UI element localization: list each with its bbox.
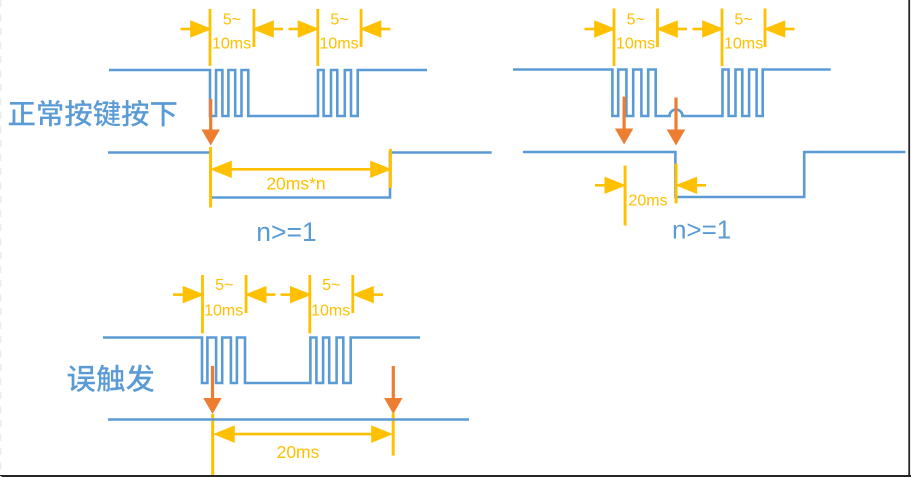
event arrow: D2 first press instant (orange) — [615, 97, 633, 145]
dimension extension line: D3 burst1 left — [201, 275, 204, 333]
wire: D1 debounced output signal — [108, 153, 492, 198]
event arrow: D3 second glitch instant (orange) — [384, 366, 402, 414]
wire: D3 raw key signal with bounce bursts — [103, 338, 420, 384]
page border: right edge — [908, 0, 910, 477]
dimension extension line: D3 20ms left — [211, 414, 214, 476]
wire: D2 debounced output signal — [523, 152, 906, 197]
svg-text:10ms: 10ms — [212, 36, 251, 53]
event arrow: D2 second press instant (orange) — [667, 98, 685, 146]
wire: D2 raw key signal with two bounce bursts and hop over arrow — [513, 70, 831, 117]
dimension extension line: D2 burst1 left — [613, 9, 616, 67]
dimension extension line: D3 burst2 right — [351, 275, 354, 313]
page border: bottom edge — [0, 475, 911, 477]
dimension arrow: D2 burst1 left (points right) — [585, 22, 613, 36]
dimension arrow: D2 burst2 left (points right) — [693, 22, 721, 36]
svg-text:10ms: 10ms — [724, 36, 763, 53]
dimension arrow: D3 burst2 left (points right) — [281, 288, 309, 302]
svg-text:5~: 5~ — [215, 277, 233, 294]
dimension extension line: D3 burst1 right — [245, 275, 248, 313]
dimension arrow: D2 burst1 right (points left) — [660, 22, 688, 36]
dimension arrow: D1 burst1 right (points left) — [256, 22, 284, 36]
dimension extension line: D1 burst1 left — [209, 9, 212, 66]
svg-text:5~: 5~ — [627, 12, 645, 29]
dimension extension line: D2 burst2 left — [721, 9, 724, 67]
dimension arrow: D2 20ms left (points right) — [595, 179, 623, 193]
svg-text:n>=1: n>=1 — [256, 217, 316, 247]
svg-text:10ms: 10ms — [616, 36, 655, 53]
dimension arrow: D3 burst1 right (points left) — [248, 288, 275, 302]
dimension arrow: D1 burst2 left (points right) — [289, 22, 317, 36]
dimension extension line: D1 burst2 left — [316, 9, 319, 66]
svg-text:10ms: 10ms — [311, 303, 350, 320]
dimension arrow: D3 burst1 left (points right) — [173, 288, 201, 302]
svg-text:n>=1: n>=1 — [672, 215, 731, 245]
dimension extension line: D1 output falling edge — [209, 147, 212, 208]
dimension arrow: D2 burst2 right (points left) — [767, 22, 795, 36]
svg-text:20ms*n: 20ms*n — [266, 174, 325, 194]
wire: D1 raw key signal with bounce bursts — [109, 70, 427, 116]
dimension arrow: D1 burst2 right (points left) — [363, 22, 391, 36]
dimension extension line: D3 burst2 left — [308, 275, 311, 333]
dimension extension line: D3 20ms right — [392, 413, 395, 456]
dimension arrow: D1 20ms*n span (double headed) — [214, 163, 389, 177]
dimension extension line: D1 burst2 right — [360, 9, 363, 47]
dimension extension line: D2 burst2 right — [764, 9, 767, 48]
dimension extension line: D1 output rising edge — [389, 149, 392, 188]
dimension extension line: D2 20ms right (over output falling edge) — [675, 164, 678, 204]
svg-text:5~: 5~ — [330, 12, 348, 29]
svg-text:5~: 5~ — [223, 12, 241, 29]
label: 误触发 (false trigger) — [68, 364, 154, 392]
svg-text:5~: 5~ — [734, 12, 752, 29]
svg-text:10ms: 10ms — [204, 303, 243, 320]
dimension extension line: D2 20ms left — [624, 166, 627, 226]
event arrow: D1 key-press instant (orange) — [202, 99, 220, 146]
wire: D3 output stays low (flat line) — [108, 418, 469, 421]
event arrow: D3 first glitch instant (orange) — [203, 366, 221, 414]
dimension arrow: D3 20ms span (double headed) — [217, 427, 390, 441]
dimension arrow: D3 burst2 right (points left) — [356, 288, 384, 302]
label: 正常按键按下 (normal key press) — [9, 100, 177, 127]
svg-text:20ms: 20ms — [629, 193, 668, 210]
dimension arrow: D2 20ms right (points left) — [679, 179, 706, 193]
dimension extension line: D1 burst1 right — [252, 9, 255, 47]
dimension arrow: D1 burst1 left (points right) — [181, 22, 209, 36]
dimension extension line: D2 burst1 right — [656, 9, 659, 48]
page border: left edge (faint dashed) — [0, 0, 2, 477]
svg-text:20ms: 20ms — [277, 442, 320, 462]
svg-text:5~: 5~ — [322, 277, 340, 294]
svg-text:10ms: 10ms — [319, 36, 358, 53]
